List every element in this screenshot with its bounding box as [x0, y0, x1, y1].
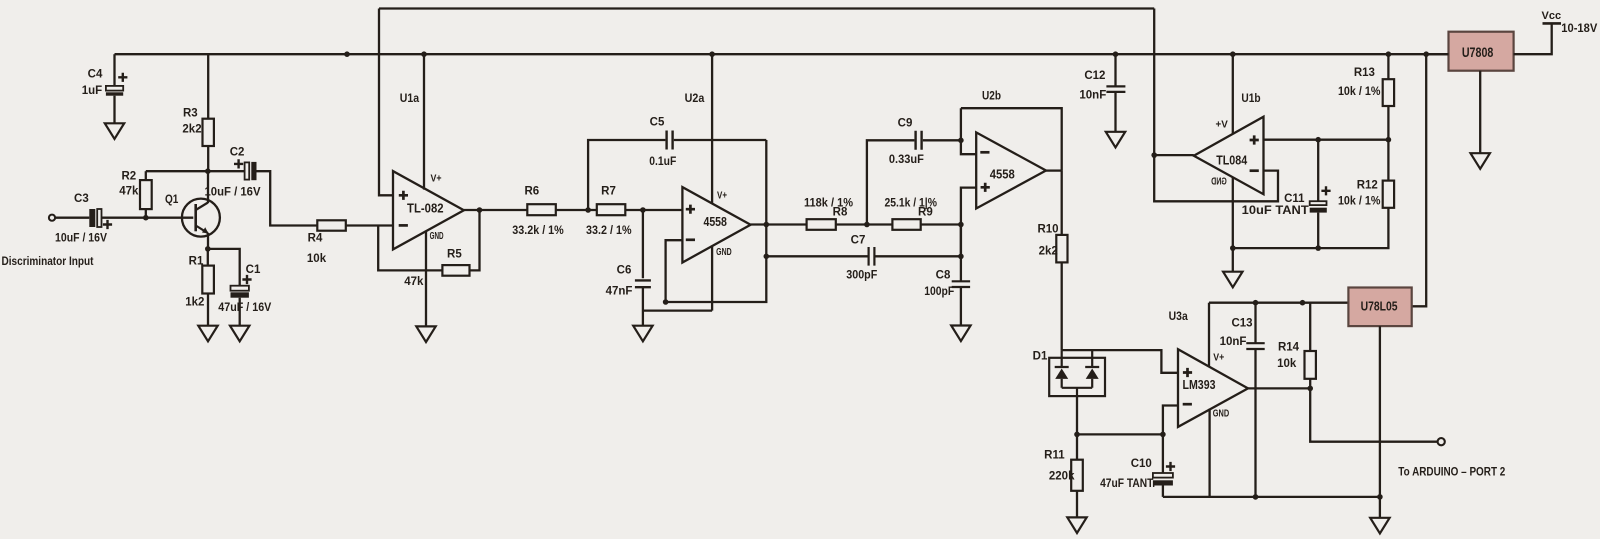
svg-text:LM393: LM393 — [1183, 378, 1216, 392]
wire U2a minus feedback — [666, 140, 767, 302]
svg-text:V+: V+ — [717, 191, 727, 202]
junction gnd net — [1377, 494, 1383, 500]
svg-text:2k2: 2k2 — [1039, 245, 1058, 257]
svg-text:C11: C11 — [1284, 193, 1305, 205]
junction C13 top — [1253, 300, 1259, 306]
op-amp U1b — [1194, 117, 1264, 195]
svg-text:10k: 10k — [1277, 358, 1297, 370]
svg-text:V+: V+ — [430, 174, 441, 185]
svg-text:0.1uF: 0.1uF — [649, 156, 676, 168]
regulator U78L05 — [1348, 288, 1411, 327]
svg-text:10k: 10k — [307, 253, 327, 265]
capacitor C7 — [869, 247, 875, 266]
svg-text:R12: R12 — [1357, 180, 1378, 192]
svg-text:R5: R5 — [447, 248, 462, 260]
regulator U7808 — [1449, 32, 1514, 71]
wire U1b plus row — [1264, 139, 1389, 141]
wire U78L05 gnd — [1379, 326, 1381, 518]
junction C10 node — [1160, 432, 1166, 438]
svg-text:U2a: U2a — [685, 93, 705, 105]
junction C9 tap — [864, 222, 870, 228]
resistor R12 — [1383, 181, 1394, 208]
svg-text:C5: C5 — [650, 116, 665, 128]
ground C1 — [230, 326, 249, 342]
wire U1b gnd row — [1233, 208, 1389, 248]
svg-text:10nF: 10nF — [1220, 336, 1247, 348]
wire U1a out — [464, 209, 527, 211]
resistor R4 — [317, 220, 346, 230]
pin U1b plus — [1250, 135, 1259, 144]
wire D1 row — [1077, 433, 1163, 435]
resistor R7 — [597, 204, 626, 215]
svg-text:220k: 220k — [1049, 471, 1075, 483]
resistor R13 — [1383, 79, 1394, 106]
junction C7 right — [958, 254, 964, 260]
node Arduino port terminal — [1438, 438, 1445, 445]
wire U2b minus in — [961, 108, 976, 154]
wire C12 bottom — [1114, 92, 1116, 132]
pin U1a minus — [399, 224, 408, 227]
svg-text:10nF: 10nF — [1079, 89, 1106, 101]
wire R1 top — [207, 249, 209, 266]
power Vcc — [1543, 22, 1562, 25]
svg-text:R9: R9 — [918, 207, 933, 219]
wire top to U1a plus — [379, 9, 393, 196]
svg-text:U7808: U7808 — [1462, 45, 1494, 60]
wire R10 bottom — [1061, 262, 1063, 351]
resistor R5 — [442, 265, 469, 276]
pin U3a plus — [1183, 368, 1192, 377]
node Discriminator Input terminal — [49, 215, 55, 221]
svg-text:C9: C9 — [898, 117, 913, 129]
diode D1 — [1049, 350, 1105, 396]
wire C8 bottom — [960, 287, 962, 326]
wire R10 top — [1061, 171, 1063, 235]
wire C10 bottom — [1162, 486, 1164, 497]
wire C7 left — [766, 255, 867, 257]
wire U1b +V pin — [1232, 54, 1234, 134]
wire U3a minus — [1163, 406, 1178, 474]
svg-text:TL-082: TL-082 — [407, 201, 444, 215]
svg-text:C2: C2 — [230, 146, 245, 158]
op-amp U2b — [976, 132, 1046, 208]
wire R5 right — [470, 210, 480, 270]
wire U3a GND pin — [1208, 409, 1210, 497]
svg-text:C7: C7 — [851, 235, 866, 247]
wire U1a GND pin — [425, 231, 427, 327]
wire C8 top — [960, 225, 962, 282]
resistor R9 — [892, 219, 920, 230]
wire Q1 emitter — [207, 233, 209, 249]
wire U7808 out rail — [1426, 53, 1448, 55]
junction C12 rail — [1113, 51, 1119, 57]
svg-text:GND: GND — [716, 247, 732, 258]
wire C4 lead — [113, 54, 115, 86]
transistor Q1 — [182, 199, 220, 237]
svg-text:300pF: 300pF — [846, 270, 877, 282]
svg-text:R10: R10 — [1037, 224, 1058, 236]
wire R2 bottom — [145, 209, 147, 218]
wire U7808 gnd — [1479, 71, 1481, 154]
plus C1 — [242, 275, 251, 284]
svg-text:GND: GND — [430, 231, 444, 242]
capacitor C10 — [1153, 473, 1173, 486]
wire top to U1b — [1153, 9, 1155, 156]
svg-text:+V: +V — [1216, 120, 1229, 131]
ground U1a — [416, 326, 435, 342]
wire C1 bottom — [239, 298, 241, 326]
svg-text:To ARDUINO – PORT 2: To ARDUINO – PORT 2 — [1398, 466, 1505, 478]
op-amp U3a — [1178, 349, 1248, 427]
wire R6-R7 — [556, 209, 597, 211]
svg-text:R7: R7 — [601, 186, 616, 198]
svg-text:1uF: 1uF — [82, 85, 102, 97]
junction C5 tap — [585, 207, 591, 213]
svg-text:C13: C13 — [1231, 318, 1252, 330]
plus C2 — [234, 159, 243, 168]
resistor R1 — [202, 266, 214, 294]
capacitor C12 — [1106, 86, 1125, 92]
svg-text:C8: C8 — [936, 270, 951, 282]
plus C4 — [118, 73, 127, 82]
wire C12 top — [1114, 54, 1116, 86]
wire bottom gnd row — [1163, 496, 1380, 498]
wire collector row — [146, 170, 245, 172]
wire out to port — [1310, 388, 1437, 441]
wire R1 bottom — [207, 294, 209, 326]
wire R5 left — [378, 226, 442, 271]
svg-text:R3: R3 — [183, 108, 198, 120]
junction C6 tap — [640, 207, 646, 213]
svg-text:R14: R14 — [1278, 342, 1300, 354]
junction R13-R12 — [1386, 137, 1392, 143]
svg-text:1k2: 1k2 — [185, 296, 204, 308]
capacitor C3 — [89, 209, 101, 227]
wire U2a GND pin — [711, 246, 713, 310]
wire C13 bottom — [1254, 349, 1256, 497]
wire 5V row — [1209, 302, 1348, 304]
wire D1 bottom — [1076, 396, 1078, 434]
wire 8V rail — [115, 53, 1449, 55]
wire C9 left — [867, 140, 915, 224]
wire C9 right — [923, 139, 961, 141]
svg-text:10uF / 16V: 10uF / 16V — [205, 187, 261, 199]
wire C11 bottom — [1317, 213, 1319, 249]
wire C6 top — [642, 210, 644, 278]
wire R14 bottom — [1309, 379, 1311, 389]
svg-text:47uF TANT.: 47uF TANT. — [1100, 478, 1155, 490]
svg-text:Q1: Q1 — [165, 194, 179, 206]
wire C7 right — [876, 225, 961, 257]
pin U2b plus — [981, 183, 990, 192]
wire U2a out — [751, 223, 807, 225]
resistor R8 — [807, 219, 836, 230]
wire U1b GND pin — [1232, 177, 1234, 271]
ground U1b — [1223, 272, 1242, 288]
wire C3 to base — [102, 217, 194, 219]
junction R9-C7-C8 — [958, 222, 964, 228]
wire R10 to plus node — [1062, 350, 1178, 373]
junction U2a V+ rail — [709, 51, 715, 57]
capacitor C1 — [231, 286, 249, 298]
ground C12 — [1106, 132, 1125, 148]
wire C5 right — [674, 139, 767, 141]
svg-text:GND: GND — [1211, 177, 1227, 188]
plus C10 — [1166, 462, 1175, 471]
wire Q1 collector — [207, 171, 209, 203]
junction base-R2 — [143, 215, 149, 221]
wire R3 bottom — [207, 146, 209, 171]
wire 8V to U78L05 — [1412, 54, 1427, 306]
junction collector node — [205, 168, 211, 174]
wire U3a out — [1248, 387, 1310, 389]
svg-text:0.33uF: 0.33uF — [889, 154, 924, 166]
svg-text:100pF: 100pF — [924, 286, 954, 298]
resistor R11 — [1071, 460, 1083, 491]
wire top feedback — [379, 7, 1154, 9]
junction U1a output — [477, 207, 483, 213]
pin U2a minus — [686, 238, 695, 241]
wire U3a V+ pin — [1208, 303, 1210, 367]
wire R9 right — [921, 223, 961, 225]
svg-text:Discriminator Input: Discriminator Input — [2, 256, 94, 268]
svg-text:C6: C6 — [617, 264, 632, 276]
wire R11 bottom — [1076, 491, 1078, 518]
capacitor C5 — [667, 131, 673, 150]
op-amp U1a — [393, 171, 464, 249]
svg-text:R4: R4 — [308, 233, 323, 245]
svg-text:U1a: U1a — [400, 93, 420, 105]
wire R7 to U2a — [625, 209, 682, 211]
ground C6 — [633, 326, 652, 342]
ground C4 — [105, 123, 124, 139]
svg-text:10-18V: 10-18V — [1561, 23, 1597, 35]
svg-text:U2b: U2b — [982, 90, 1001, 102]
capacitor C8 — [952, 281, 970, 287]
svg-text:C1: C1 — [246, 264, 261, 276]
resistor R3 — [203, 119, 214, 146]
capacitor C6 — [635, 280, 651, 287]
svg-text:R1: R1 — [189, 255, 204, 267]
wire U2b plus in — [961, 188, 976, 225]
junction U2a fb corner — [663, 299, 669, 305]
ground C8 — [951, 326, 970, 342]
svg-text:47k: 47k — [404, 276, 424, 288]
junction U1b +V rail — [1230, 51, 1236, 57]
junction C11 top — [1315, 137, 1321, 143]
junction U1b GND row — [1230, 245, 1236, 251]
resistor R14 — [1305, 351, 1316, 379]
wire emitter to C1 — [208, 249, 240, 286]
wire R8-R9 — [836, 223, 893, 225]
svg-text:D1: D1 — [1033, 351, 1048, 363]
junction C9-minus — [958, 138, 964, 144]
junction C11 gnd row — [1315, 245, 1321, 251]
junction C7 left — [764, 253, 770, 259]
wire R2 top — [145, 171, 147, 180]
svg-text:C4: C4 — [88, 69, 103, 81]
svg-text:Vcc: Vcc — [1542, 10, 1562, 22]
pin U1b minus — [1250, 169, 1259, 172]
svg-text:4558: 4558 — [703, 215, 727, 229]
wire U2a V+ pin — [711, 54, 713, 204]
junction emitter node — [205, 246, 211, 252]
svg-text:10uF TANT: 10uF TANT — [1242, 205, 1309, 217]
wire U1a V+ pin — [423, 54, 425, 189]
svg-text:C12: C12 — [1084, 70, 1105, 82]
capacitor C9 — [916, 131, 922, 150]
op-amp U2a — [682, 187, 750, 262]
svg-text:C3: C3 — [74, 193, 89, 205]
wire U1b out row — [1154, 154, 1194, 156]
junction out-C5C7 — [764, 222, 770, 228]
plus C11 — [1321, 186, 1330, 195]
capacitor C13 — [1246, 343, 1264, 349]
wire C11 top — [1317, 140, 1319, 202]
wire R14 top — [1309, 303, 1311, 351]
ground R1 — [198, 326, 217, 342]
svg-text:47uF / 16V: 47uF / 16V — [218, 302, 271, 314]
capacitor C11 — [1310, 201, 1327, 212]
wire C2 to R4 — [257, 171, 318, 225]
svg-text:33.2k / 1%: 33.2k / 1% — [512, 225, 564, 237]
svg-text:GND: GND — [1213, 409, 1229, 420]
svg-text:10uF / 16V: 10uF / 16V — [55, 233, 107, 245]
svg-text:U1b: U1b — [1241, 93, 1260, 105]
wire R3 top — [207, 54, 209, 119]
ground output net — [1370, 518, 1389, 534]
resistor R2 — [140, 180, 152, 209]
wire C6 bottom — [643, 287, 712, 326]
wire input to C3 — [55, 217, 89, 219]
resistor R6 — [527, 204, 556, 215]
svg-text:4558: 4558 — [990, 168, 1015, 182]
svg-text:10k / 1%: 10k / 1% — [1338, 86, 1381, 98]
junction R14 top — [1300, 300, 1306, 306]
svg-text:R11: R11 — [1044, 450, 1065, 462]
junction 78L05 supply tap — [1423, 51, 1429, 57]
svg-text:33.2 / 1%: 33.2 / 1% — [586, 225, 632, 237]
junction U1b out — [1151, 152, 1157, 158]
capacitor C2 — [245, 162, 257, 180]
ground R11 — [1067, 517, 1086, 533]
wire R11 top — [1076, 434, 1078, 459]
svg-text:V+: V+ — [1213, 353, 1224, 364]
svg-text:10k / 1%: 10k / 1% — [1338, 195, 1381, 207]
svg-text:TL084: TL084 — [1216, 154, 1247, 168]
resistor R10 — [1056, 235, 1067, 263]
capacitor C4 — [106, 86, 123, 123]
wire U2b out — [1046, 169, 1062, 171]
wire C5 left — [588, 140, 665, 210]
wire R12 top — [1387, 140, 1389, 181]
junction C13 gnd — [1253, 494, 1259, 500]
svg-text:U78L05: U78L05 — [1361, 300, 1398, 314]
wire U7808 in — [1514, 23, 1552, 54]
svg-text:R2: R2 — [121, 170, 136, 182]
junction R13 rail — [1386, 51, 1392, 57]
wire U1b feedback — [1154, 155, 1278, 201]
wire R13 top — [1387, 54, 1389, 79]
pin U3a minus — [1183, 403, 1192, 406]
ground U7808 — [1471, 153, 1490, 169]
wire R13 bottom — [1387, 106, 1389, 140]
pin U1a plus — [399, 191, 408, 200]
junction D1-R11 — [1074, 432, 1080, 438]
svg-text:R6: R6 — [524, 186, 539, 198]
pin U2b minus — [980, 151, 989, 154]
wire C13 top — [1254, 303, 1256, 344]
svg-text:47nF: 47nF — [606, 285, 633, 297]
svg-text:U3a: U3a — [1169, 311, 1189, 323]
wire R4 to U1a minus — [346, 224, 393, 226]
junction out-R14 — [1307, 386, 1313, 392]
wire U2b top feedback — [961, 108, 1062, 170]
svg-text:2k2: 2k2 — [182, 123, 201, 135]
pin U2a plus — [686, 205, 695, 214]
svg-text:C10: C10 — [1131, 458, 1152, 470]
junction rail stub — [344, 51, 350, 57]
svg-text:R13: R13 — [1354, 67, 1375, 79]
plus C3 — [103, 220, 112, 229]
svg-text:47k: 47k — [119, 186, 139, 198]
junction U1a V+ rail — [421, 51, 427, 57]
svg-text:R8: R8 — [833, 207, 848, 219]
